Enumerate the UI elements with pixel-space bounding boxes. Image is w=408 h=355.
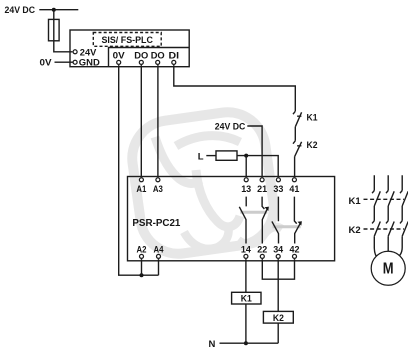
svg-text:41: 41: [289, 184, 300, 195]
wire 0V to A2/A4 bus: [119, 65, 159, 275]
terminal A3: [156, 178, 160, 182]
wire DI to contact K1: [174, 65, 295, 111]
wire K2 to N: [277, 323, 279, 343]
mechanical link bar 33/41: [273, 225, 301, 228]
contact K2 (NO): [293, 141, 302, 157]
svg-text:0V: 0V: [40, 57, 53, 68]
motor M: [371, 251, 405, 285]
contact 41-42: [294, 197, 300, 244]
wire 24VDC to 21: [247, 126, 262, 177]
contact K1 (NO): [293, 111, 302, 127]
coil K1 box: [232, 292, 261, 304]
svg-text:M: M: [383, 261, 394, 278]
wire 0V to GND: [55, 61, 74, 63]
wire L to fuse: [206, 155, 216, 157]
3-phase supply stubs: [374, 175, 402, 190]
contactor K2 contacts: [372, 221, 408, 237]
svg-text:L: L: [198, 151, 204, 162]
wire to 13: [245, 156, 247, 178]
svg-text:A3: A3: [153, 184, 163, 195]
svg-text:42: 42: [290, 244, 300, 255]
svg-text:A4: A4: [154, 244, 165, 255]
wire K2 to terminal 41: [294, 156, 296, 177]
junction dot bus: [140, 273, 144, 277]
svg-text:PSR-PC21: PSR-PC21: [132, 217, 180, 229]
wire 14 to coil K1: [245, 259, 247, 292]
terminal GND: [73, 60, 77, 64]
terminal 21: [260, 178, 264, 182]
wire 42 loop: [278, 259, 294, 279]
svg-text:K2: K2: [273, 313, 284, 324]
wire K1-K2 link: [294, 127, 296, 141]
wire N line: [220, 342, 279, 344]
svg-text:K2: K2: [349, 225, 361, 236]
wire DO2 to A3: [157, 65, 159, 177]
terminal 24V: [73, 50, 77, 54]
dashed link K1: [364, 198, 405, 200]
terminal A1: [139, 178, 143, 182]
svg-text:24V DC: 24V DC: [215, 121, 246, 132]
junction dot N: [244, 341, 248, 345]
svg-text:24V DC: 24V DC: [5, 5, 36, 16]
svg-text:K2: K2: [307, 140, 318, 151]
svg-text:21: 21: [257, 184, 268, 195]
wire fuse to 33: [237, 156, 278, 178]
svg-text:K1: K1: [241, 294, 253, 305]
fuse F1: [49, 19, 60, 40]
arrow head 41: [298, 221, 302, 225]
svg-text:A1: A1: [136, 184, 147, 195]
wire 24V DC rail: [39, 9, 78, 11]
terminal 41: [292, 178, 296, 182]
svg-text:33: 33: [273, 184, 283, 195]
contact 21-22: [262, 197, 267, 244]
svg-text:DI: DI: [169, 50, 180, 61]
motor leads: [374, 236, 402, 258]
coil K2 box: [263, 311, 293, 323]
relay PSR-PC21 box: [128, 177, 335, 261]
svg-text:DO: DO: [151, 50, 165, 61]
contact 13-14: [239, 197, 246, 244]
wire A2 to bus: [141, 259, 143, 275]
svg-text:K1: K1: [349, 196, 362, 207]
svg-text:14: 14: [241, 244, 252, 255]
svg-text:DO: DO: [134, 50, 148, 61]
wire 34 to coil K2: [277, 259, 279, 311]
svg-text:SIS/ FS-PLC: SIS/ FS-PLC: [101, 35, 153, 46]
svg-text:GND: GND: [79, 58, 100, 69]
terminal 13: [244, 178, 248, 182]
junction dot L: [244, 154, 248, 158]
wire 22 loop: [262, 259, 278, 279]
svg-text:K1: K1: [307, 113, 319, 124]
wire A4 to bus: [158, 259, 160, 275]
fuse F2: [216, 151, 237, 160]
dashed label frame: [93, 33, 161, 47]
arrow head 21: [265, 207, 269, 211]
mechanical link bar 13/21: [240, 211, 267, 214]
wire K1 to N: [245, 304, 247, 343]
svg-text:N: N: [209, 339, 216, 350]
contact 33-34: [272, 197, 279, 244]
wire DO1 to A1: [140, 65, 142, 177]
terminal 33: [276, 178, 280, 182]
PLC terminal section divider: [109, 48, 190, 67]
svg-text:13: 13: [241, 184, 251, 195]
PLC box: [70, 30, 189, 67]
dashed link K2: [364, 228, 405, 230]
svg-text:24V: 24V: [80, 47, 97, 58]
svg-text:34: 34: [273, 244, 284, 255]
wire fuse drop to 24V: [54, 10, 73, 52]
svg-text:22: 22: [257, 244, 267, 255]
contactor K1 contacts: [372, 191, 408, 221]
svg-text:A2: A2: [137, 244, 147, 255]
junction dot rail: [52, 8, 56, 12]
svg-text:0V: 0V: [113, 50, 126, 61]
